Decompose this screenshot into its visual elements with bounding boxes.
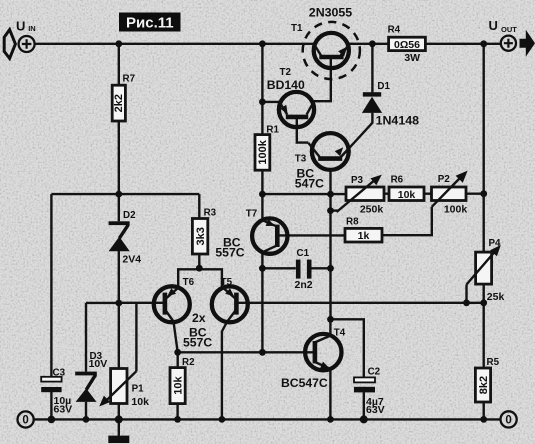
junction T2 emitter	[259, 99, 266, 106]
wire T7 base to R8	[277, 234, 345, 236]
wire top rail right	[349, 43, 501, 45]
junction T6 base node	[115, 300, 122, 307]
svg-text:T4: T4	[334, 327, 346, 338]
svg-text:D2: D2	[123, 210, 136, 221]
wire bottom rail	[34, 418, 501, 420]
svg-text:10V: 10V	[89, 358, 108, 370]
svg-text:U: U	[489, 18, 498, 33]
junction right column top rail	[480, 40, 487, 47]
junction T4 base node	[259, 349, 266, 356]
svg-text:250k: 250k	[360, 204, 384, 216]
wire C3 branch	[50, 194, 52, 419]
resistor R4 0Ω56 3W	[388, 25, 426, 64]
junction T5 collector ground	[219, 416, 226, 423]
wire net-A horizontal	[51, 193, 199, 195]
potentiometer P3 250k	[337, 175, 384, 216]
svg-text:T3: T3	[295, 153, 307, 164]
svg-text:2n2: 2n2	[295, 279, 313, 291]
wire T5 collector	[222, 310, 236, 420]
potentiometer P2 100k	[432, 171, 468, 216]
junction P2 right	[480, 190, 487, 197]
wire R7 branch	[118, 44, 120, 194]
wire D2 bottom	[118, 251, 120, 303]
junction C1 left	[259, 265, 266, 272]
wire P1 wiper feed	[135, 303, 137, 371]
wire R8 to P2 wiper	[382, 207, 432, 235]
wire top rail left	[35, 43, 314, 45]
transistor T6 BC557C	[154, 277, 195, 323]
resistor R5 8k2	[475, 357, 499, 402]
svg-text:R8: R8	[346, 216, 359, 227]
wire P2 right	[466, 192, 484, 194]
junction P3 wiper tap	[327, 207, 334, 214]
capacitor C2 4µ7 63V	[354, 367, 385, 416]
svg-text:2V4: 2V4	[122, 254, 141, 266]
svg-text:U: U	[16, 19, 25, 34]
resistor R2 10k	[170, 357, 195, 404]
resistor R7 2k2	[112, 74, 135, 122]
zener D3 10V	[75, 351, 107, 402]
svg-text:100k: 100k	[444, 204, 468, 216]
svg-text:T5: T5	[221, 277, 233, 288]
resistor R3 3k3	[192, 208, 216, 254]
wire right column	[483, 44, 485, 420]
junction C1 right	[327, 265, 334, 272]
input terminal U_IN	[4, 19, 36, 59]
wire emitter rail T5 T6	[178, 269, 222, 287]
wire T4 base line	[178, 351, 314, 353]
svg-text:BD140: BD140	[267, 78, 305, 92]
wire T1 base	[314, 57, 331, 101]
junction P4 wiper tie	[463, 299, 470, 306]
svg-text:557C: 557C	[215, 246, 244, 260]
svg-text:557C: 557C	[183, 336, 212, 350]
wire C1 left	[262, 267, 295, 269]
wire T4 collector stub	[329, 319, 331, 336]
junction C2 ground	[360, 415, 368, 423]
ground terminal 0 (right)	[501, 411, 517, 427]
junction T3 base node	[327, 191, 334, 198]
junction R7 top rail	[115, 40, 122, 47]
junction T4 collector node	[327, 316, 334, 323]
wire T5 base long line	[236, 302, 466, 304]
junction D3 ground	[83, 416, 90, 423]
wire R2 branch	[176, 352, 178, 419]
wire T2 base to T3 collector	[297, 119, 308, 143]
svg-text:0Ω56: 0Ω56	[394, 39, 420, 51]
svg-text:R6: R6	[391, 174, 404, 185]
junction R1 bottom node	[259, 191, 266, 198]
wire R1 branch	[261, 44, 263, 194]
svg-text:100k: 100k	[257, 139, 269, 164]
potentiometer P4 25k	[467, 238, 505, 303]
wire P4 bottom tie	[467, 302, 484, 304]
wire T2 emitter	[262, 101, 279, 103]
svg-text:547C: 547C	[295, 176, 324, 190]
junction R3 emitter rail	[196, 265, 203, 272]
wire T6 collector	[165, 310, 178, 353]
chassis ground bar	[108, 419, 129, 443]
svg-text:25k: 25k	[487, 291, 505, 303]
svg-text:R4: R4	[388, 25, 401, 36]
svg-text:OUT: OUT	[501, 25, 517, 34]
transistor T7 BC557C	[215, 208, 287, 259]
junction P1 ground	[115, 415, 123, 423]
wire C1 right	[311, 267, 330, 269]
junction R1 top rail	[259, 40, 266, 47]
junction C3 ground	[48, 416, 56, 424]
transistor T4 BC547C	[281, 327, 346, 390]
wire T7 emitter	[261, 194, 263, 220]
svg-text:IN: IN	[28, 24, 36, 33]
svg-text:63V: 63V	[54, 403, 73, 415]
svg-text:BC547C: BC547C	[281, 376, 328, 390]
capacitor C3 10µ 63V	[41, 367, 72, 415]
wire T6 base	[119, 302, 165, 304]
zener D2 2V4	[109, 210, 142, 265]
junction D1 top rail	[369, 40, 376, 47]
svg-text:R3: R3	[204, 208, 217, 219]
svg-text:D1: D1	[377, 81, 390, 92]
svg-text:C2: C2	[368, 367, 381, 378]
title Рис.11	[119, 13, 181, 32]
wire R3 bottom	[198, 254, 200, 268]
label 2x BC 557C	[183, 311, 212, 350]
svg-text:P1: P1	[132, 384, 145, 395]
wire R3 top	[198, 194, 200, 218]
svg-text:8k2: 8k2	[478, 376, 490, 394]
wire R6 to P2	[424, 192, 432, 194]
junction R5 ground	[480, 416, 487, 423]
svg-text:P3: P3	[351, 175, 364, 186]
svg-text:3W: 3W	[404, 52, 420, 64]
svg-text:2N3055: 2N3055	[309, 6, 353, 20]
svg-text:2x: 2x	[192, 311, 206, 325]
wire D1 top	[371, 44, 373, 93]
wire D2 top	[118, 194, 120, 221]
wire T7 collector	[261, 252, 263, 352]
capacitor C1 2n2	[295, 248, 313, 291]
svg-text:10k: 10k	[131, 396, 149, 408]
resistor R6 10k	[389, 174, 424, 200]
diode D1 1N4148	[362, 81, 419, 128]
svg-text:R7: R7	[123, 74, 136, 85]
transistor T2 BD140	[267, 67, 314, 127]
wire P3 to R6	[384, 192, 389, 194]
svg-text:R2: R2	[182, 357, 195, 368]
svg-text:1k: 1k	[358, 230, 370, 242]
wire net-B horizontal	[262, 193, 346, 195]
wire C2 branch	[331, 319, 364, 419]
svg-text:0: 0	[22, 415, 28, 427]
svg-text:63V: 63V	[366, 404, 385, 416]
svg-text:T1: T1	[291, 23, 303, 34]
svg-text:C1: C1	[297, 248, 310, 259]
svg-text:P2: P2	[438, 174, 451, 185]
transistor T3 BC547C	[295, 133, 349, 190]
wire T4 emitter drop	[329, 369, 331, 420]
svg-text:C3: C3	[53, 367, 66, 378]
potentiometer P1 10k	[99, 369, 149, 409]
wire T3 emitter to D1	[341, 113, 372, 157]
wire P3 wiper stub	[331, 209, 339, 211]
junction R7 bottom node	[115, 191, 122, 198]
svg-text:10k: 10k	[398, 189, 416, 201]
svg-text:2k2: 2k2	[113, 94, 125, 112]
svg-text:0: 0	[505, 415, 511, 427]
wire vertical line T3-base/T4-collector	[329, 170, 331, 319]
svg-text:10k: 10k	[172, 376, 184, 395]
wire D3 branch	[86, 303, 119, 420]
svg-text:R5: R5	[487, 357, 500, 368]
junction T4 emitter ground	[327, 416, 334, 423]
ground terminal 0 (left)	[18, 411, 34, 427]
svg-text:R1: R1	[266, 124, 279, 135]
resistor R1 100k	[255, 124, 279, 170]
resistor R8 1k	[345, 216, 382, 242]
svg-text:3k3: 3k3	[195, 227, 207, 245]
svg-text:T2: T2	[280, 67, 292, 78]
transistor T5 BC557C	[212, 277, 248, 323]
svg-text:T6: T6	[183, 277, 195, 288]
output terminal U_OUT	[489, 18, 535, 57]
svg-text:T7: T7	[246, 208, 258, 219]
svg-text:Рис.11: Рис.11	[126, 15, 174, 32]
svg-text:P4: P4	[489, 238, 502, 249]
junction R2 top	[174, 349, 181, 356]
junction R2 ground	[174, 416, 181, 423]
svg-text:1N4148: 1N4148	[376, 113, 420, 127]
wire P1 branch	[118, 303, 120, 419]
transistor T1 2N3055	[291, 6, 360, 80]
junction P4 bottom	[480, 299, 487, 306]
